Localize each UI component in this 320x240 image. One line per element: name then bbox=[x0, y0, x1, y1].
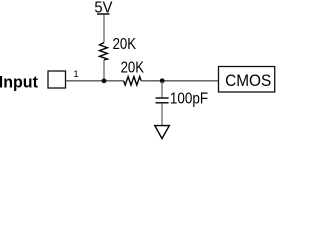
svg-text:20K: 20K bbox=[121, 60, 145, 77]
CMOS gate box U1 bbox=[219, 67, 275, 93]
resistor R2 (horizontal 20K) bbox=[124, 77, 142, 86]
ground symbol bbox=[155, 126, 170, 139]
svg-text:1: 1 bbox=[73, 69, 78, 80]
wire from R2 to CMOS box bbox=[141, 80, 218, 82]
wire from C1 to ground bbox=[161, 103, 163, 125]
wire from node B to C1 bbox=[161, 81, 163, 97]
wire from 5V bar to R1 bbox=[103, 15, 105, 43]
capacitor C1 top plate bbox=[156, 97, 169, 99]
junction node A bbox=[102, 78, 107, 83]
svg-text:Input: Input bbox=[0, 73, 38, 91]
power rail bar 5V bbox=[97, 13, 110, 15]
wire from R1 to node A bbox=[103, 60, 105, 81]
resistor R1 (vertical 20K) bbox=[100, 43, 108, 60]
wire from connector to node A bbox=[66, 80, 124, 82]
input connector box bbox=[48, 71, 66, 88]
capacitor C1 bottom plate bbox=[156, 102, 169, 104]
svg-text:CMOS: CMOS bbox=[225, 73, 271, 90]
svg-text:20K: 20K bbox=[113, 36, 137, 53]
junction node B bbox=[160, 78, 165, 83]
svg-text:100pF: 100pF bbox=[170, 91, 208, 108]
